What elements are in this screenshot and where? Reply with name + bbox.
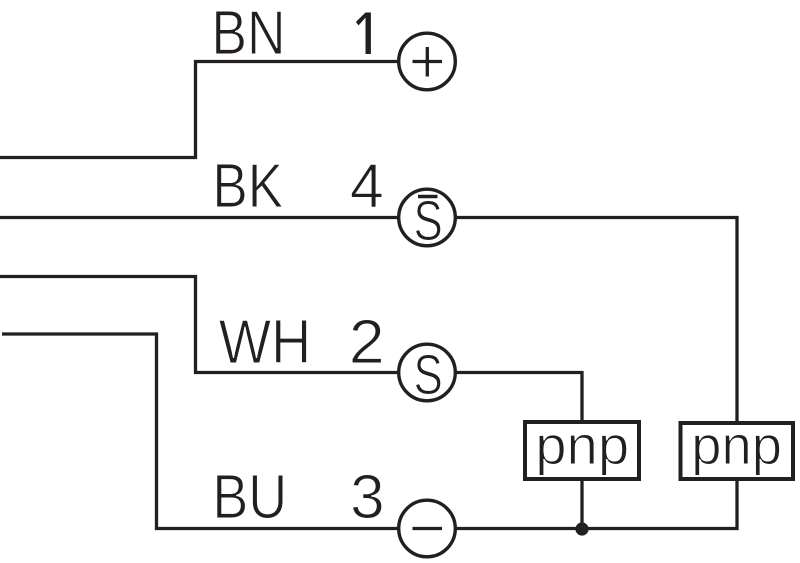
svg-text:S: S bbox=[414, 343, 443, 407]
svg-text:pnp: pnp bbox=[535, 415, 629, 476]
wire WH: left stub down to pin-2 circle bbox=[0, 277, 398, 373]
label pin number 1 bbox=[356, 13, 371, 55]
wire BU: minus circle right to pnp box 2 bottom bbox=[456, 481, 737, 529]
terminal circle pin 4 S-bar output bbox=[399, 189, 456, 253]
terminal circle pin 1 plus bbox=[399, 33, 456, 90]
wire BK: S-bar circle right to pnp box 2 bbox=[456, 218, 737, 422]
terminal circle pin 2 S output bbox=[399, 343, 456, 407]
wire: pnp box 1 bottom to BU junction bbox=[580, 481, 583, 529]
svg-text:S: S bbox=[414, 189, 443, 253]
pnp box 2 bbox=[681, 415, 794, 479]
pnp box 1 bbox=[525, 415, 639, 479]
svg-text:BN: BN bbox=[211, 0, 285, 68]
svg-text:BU: BU bbox=[212, 462, 287, 531]
wire BK: left stub straight to S-bar circle bbox=[0, 216, 398, 219]
terminal circle pin 3 minus bbox=[399, 500, 456, 557]
node junction dot on BU wire bbox=[575, 522, 588, 535]
wire BU: left stub down to pin-3 circle bbox=[2, 334, 398, 529]
svg-text:2: 2 bbox=[349, 308, 385, 377]
wire WH: S circle right to pnp box 1 bbox=[456, 373, 582, 421]
svg-text:3: 3 bbox=[350, 463, 384, 532]
wire BN: left stub to pin-1 circle bbox=[0, 62, 398, 158]
svg-text:pnp: pnp bbox=[691, 415, 782, 476]
svg-text:4: 4 bbox=[350, 152, 384, 222]
svg-text:BK: BK bbox=[212, 152, 283, 221]
svg-text:WH: WH bbox=[219, 308, 311, 377]
